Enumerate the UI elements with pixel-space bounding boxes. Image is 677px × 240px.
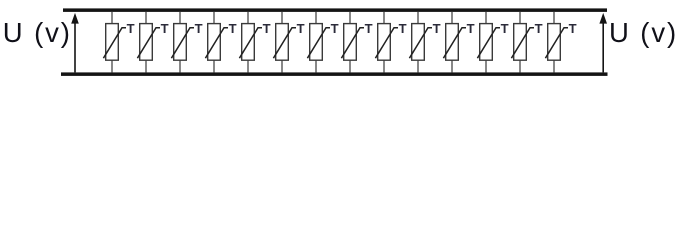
svg-text:T: T [161, 21, 169, 36]
varistor RV13 body [514, 24, 527, 61]
svg-text:T: T [501, 21, 509, 36]
wire: bottom stub of branch 2 [145, 61, 147, 73]
svg-text:T: T [297, 21, 305, 36]
svg-text:U (v): U (v) [609, 17, 677, 48]
voltage arrow left [71, 13, 79, 73]
varistor RV3 body [174, 24, 187, 61]
varistor RV14 body [548, 24, 561, 61]
wire: top stub of branch 12 [485, 12, 487, 23]
wire: bottom stub of branch 3 [179, 61, 181, 73]
svg-text:T: T [331, 21, 339, 36]
varistor RV7 diagonal stroke [307, 28, 330, 59]
svg-text:T: T [569, 21, 577, 36]
wire: top stub of branch 5 [247, 12, 249, 23]
wire: bottom stub of branch 1 [111, 61, 113, 73]
varistor RV4 diagonal stroke [205, 28, 228, 59]
varistor RV13 diagonal stroke [511, 28, 534, 59]
wire: top stub of branch 7 [315, 12, 317, 23]
varistor RV8 body [344, 24, 357, 61]
wire: top stub of branch 2 [145, 12, 147, 23]
wire: bottom stub of branch 6 [281, 61, 283, 73]
varistor RV14 diagonal stroke [545, 28, 568, 59]
wire: bottom stub of branch 4 [213, 61, 215, 73]
svg-text:T: T [263, 21, 271, 36]
svg-text:T: T [467, 21, 475, 36]
varistor RV6 body [276, 24, 289, 61]
varistor RV6 diagonal stroke [273, 28, 296, 59]
varistor RV2 diagonal stroke [137, 28, 160, 59]
varistor RV1 diagonal stroke [103, 28, 126, 59]
varistor RV5 body [242, 24, 255, 61]
svg-text:T: T [195, 21, 203, 36]
wire: top stub of branch 4 [213, 12, 215, 23]
svg-text:T: T [433, 21, 441, 36]
varistor RV9 body [378, 24, 391, 61]
wire: top stub of branch 14 [553, 12, 555, 23]
wire: bottom stub of branch 7 [315, 61, 317, 73]
wire: bottom stub of branch 9 [383, 61, 385, 73]
varistor RV12 diagonal stroke [477, 28, 500, 59]
wire: top stub of branch 10 [417, 12, 419, 23]
wire: bottom stub of branch 12 [485, 61, 487, 73]
svg-text:T: T [365, 21, 373, 36]
wire: bottom stub of branch 8 [349, 61, 351, 73]
wire: top stub of branch 11 [451, 12, 453, 23]
voltage arrow right [599, 13, 607, 73]
varistor RV5 diagonal stroke [239, 28, 262, 59]
varistor RV10 diagonal stroke [409, 28, 432, 59]
wire: bottom stub of branch 10 [417, 61, 419, 73]
svg-text:U (v): U (v) [3, 17, 72, 48]
wire: top stub of branch 9 [383, 12, 385, 23]
svg-text:T: T [127, 21, 135, 36]
wire: top stub of branch 13 [519, 12, 521, 23]
varistor RV10 body [412, 24, 425, 61]
varistor RV4 body [208, 24, 221, 61]
varistor RV12 body [480, 24, 493, 61]
wire: top stub of branch 8 [349, 12, 351, 23]
wire: bottom stub of branch 14 [553, 61, 555, 73]
svg-text:T: T [535, 21, 543, 36]
svg-text:T: T [399, 21, 407, 36]
wire: top stub of branch 1 [111, 12, 113, 23]
varistor RV8 diagonal stroke [341, 28, 364, 59]
top bus rail [63, 8, 607, 12]
wire: bottom stub of branch 11 [451, 61, 453, 73]
bottom bus rail [61, 72, 608, 76]
varistor RV9 diagonal stroke [375, 28, 398, 59]
wire: top stub of branch 3 [179, 12, 181, 23]
svg-text:T: T [229, 21, 237, 36]
wire: bottom stub of branch 13 [519, 61, 521, 73]
varistor RV2 body [140, 24, 153, 61]
varistor RV11 body [446, 24, 459, 61]
wire: bottom stub of branch 5 [247, 61, 249, 73]
wire: top stub of branch 6 [281, 12, 283, 23]
varistor RV11 diagonal stroke [443, 28, 466, 59]
varistor RV7 body [310, 24, 323, 61]
varistor RV1 body [106, 24, 119, 61]
varistor RV3 diagonal stroke [171, 28, 194, 59]
